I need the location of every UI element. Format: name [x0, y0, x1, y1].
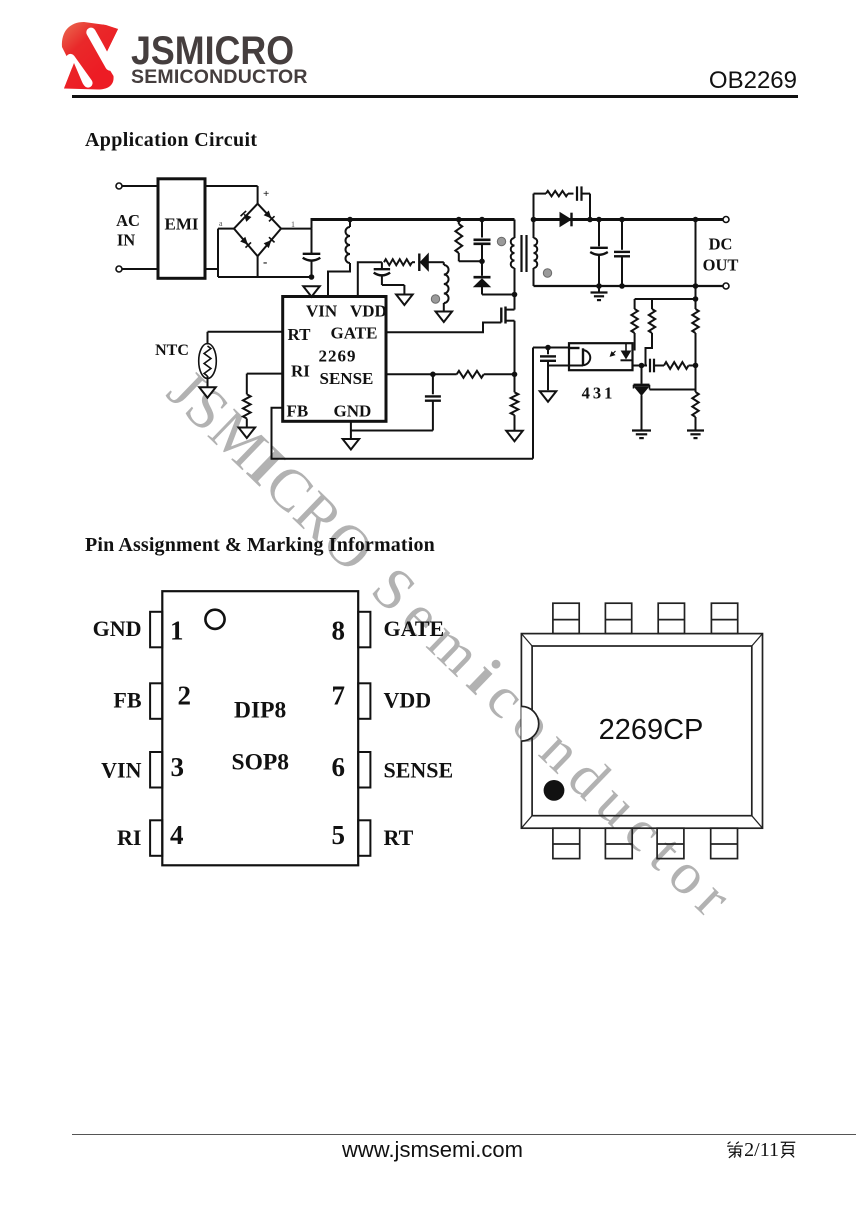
svg-text:-: - [263, 254, 267, 269]
svg-text:+: + [263, 188, 269, 200]
svg-text:IN: IN [117, 231, 135, 250]
svg-text:DIP8: DIP8 [234, 698, 286, 724]
svg-text:FB: FB [287, 402, 309, 421]
svg-text:2269: 2269 [319, 347, 357, 366]
svg-text:VIN: VIN [101, 757, 141, 782]
svg-text:SENSE: SENSE [320, 369, 374, 388]
svg-text:GND: GND [93, 616, 142, 641]
svg-text:3: 3 [171, 752, 185, 782]
svg-text:FB: FB [113, 688, 141, 713]
svg-text:AC: AC [116, 211, 140, 230]
svg-text:OUT: OUT [703, 256, 739, 275]
svg-text:RT: RT [384, 825, 414, 850]
svg-text:8: 8 [332, 616, 346, 646]
svg-text:a: a [219, 219, 223, 228]
svg-text:DC: DC [709, 235, 733, 254]
svg-text:RT: RT [288, 325, 312, 344]
svg-text:7: 7 [332, 681, 346, 711]
svg-text:EMI: EMI [165, 215, 199, 234]
svg-text:2: 2 [178, 681, 192, 711]
svg-text:5: 5 [332, 820, 346, 850]
svg-text:VIN: VIN [306, 302, 338, 321]
svg-text:SENSE: SENSE [384, 757, 454, 782]
svg-text:VDD: VDD [384, 688, 432, 713]
svg-text:2269CP: 2269CP [599, 714, 704, 746]
svg-text:VDD: VDD [350, 302, 387, 321]
svg-text:RI: RI [291, 362, 310, 381]
svg-text:4: 4 [170, 820, 184, 850]
svg-text:SOP8: SOP8 [232, 750, 289, 776]
svg-text:1: 1 [170, 616, 184, 646]
svg-text:431: 431 [582, 384, 616, 403]
svg-text:GATE: GATE [331, 324, 378, 343]
svg-text:GND: GND [334, 402, 372, 421]
svg-text:6: 6 [332, 752, 346, 782]
svg-text:GATE: GATE [384, 616, 445, 641]
svg-text:RI: RI [117, 825, 141, 850]
svg-text:NTC: NTC [155, 342, 189, 359]
